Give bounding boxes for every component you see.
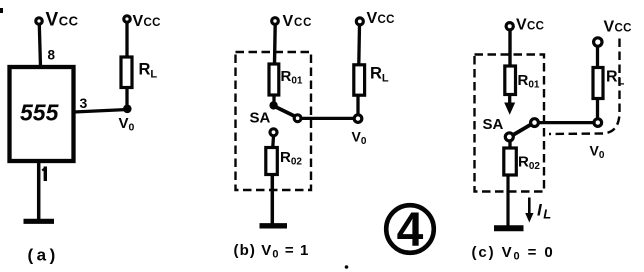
svg-text:RL: RL [606, 69, 625, 88]
svg-text:4: 4 [397, 204, 424, 257]
svg-text:RL: RL [370, 65, 389, 85]
svg-text:VCC: VCC [516, 16, 544, 33]
svg-text:V0: V0 [119, 115, 135, 134]
svg-text:VCC: VCC [367, 10, 395, 27]
svg-text:V0: V0 [590, 143, 605, 162]
svg-text:R01: R01 [518, 72, 540, 91]
svg-text:3: 3 [80, 95, 88, 111]
svg-text:(a): (a) [28, 246, 59, 265]
svg-text:R01: R01 [281, 68, 303, 87]
svg-text:555: 555 [20, 100, 60, 126]
svg-text:V0: V0 [352, 129, 367, 148]
svg-text:VCC: VCC [133, 13, 161, 30]
svg-text:RL: RL [139, 61, 158, 81]
svg-text:SA: SA [250, 110, 271, 127]
svg-text:IL: IL [537, 201, 551, 222]
svg-text:R02: R02 [280, 149, 302, 168]
svg-text:VCC: VCC [283, 13, 313, 30]
svg-text:R02: R02 [518, 154, 540, 173]
svg-text:VCC: VCC [604, 18, 632, 35]
svg-text:8: 8 [48, 48, 56, 63]
svg-text:VCC: VCC [46, 10, 79, 31]
svg-text:(c) V0 = 0: (c) V0 = 0 [472, 244, 555, 262]
svg-text:SA: SA [483, 116, 504, 133]
svg-text:(b) V0 = 1: (b) V0 = 1 [234, 242, 310, 260]
